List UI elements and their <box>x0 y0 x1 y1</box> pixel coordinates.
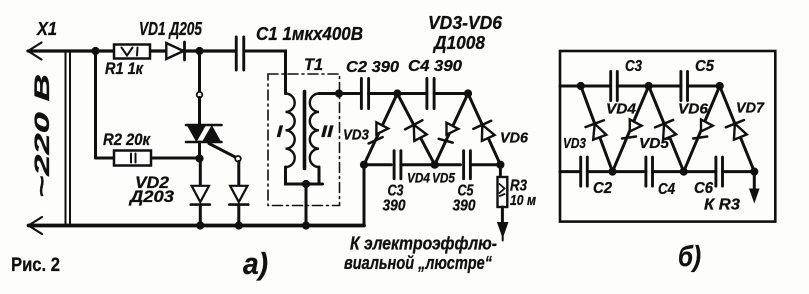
svg-text:10 м: 10 м <box>510 192 536 209</box>
svg-text:~220 В: ~220 В <box>30 74 54 198</box>
svg-text:VD3: VD3 <box>343 127 370 144</box>
svg-text:C4: C4 <box>658 181 675 198</box>
svg-text:VD3-VD6: VD3-VD6 <box>428 13 503 33</box>
svg-text:VD1 Д205: VD1 Д205 <box>139 19 203 39</box>
svg-text:R2 20к: R2 20к <box>103 130 151 149</box>
svg-text:T1: T1 <box>304 55 323 74</box>
svg-text:VD3: VD3 <box>563 135 587 152</box>
svg-text:C3: C3 <box>625 58 642 75</box>
svg-text:C2: C2 <box>593 180 612 197</box>
svg-text:б): б) <box>678 241 701 273</box>
svg-text:II: II <box>321 122 335 141</box>
svg-text:C1 1мкх400В: C1 1мкх400В <box>256 24 363 44</box>
svg-text:К R3: К R3 <box>704 197 740 214</box>
svg-text:VD5: VD5 <box>432 170 455 186</box>
svg-text:VD6: VD6 <box>500 130 529 147</box>
svg-text:C5: C5 <box>695 58 715 75</box>
svg-text:C6: C6 <box>694 180 713 197</box>
svg-text:а): а) <box>243 246 268 281</box>
svg-text:X1: X1 <box>36 19 57 39</box>
svg-text:C4 390: C4 390 <box>408 58 462 75</box>
svg-text:Д1008: Д1008 <box>432 33 485 53</box>
svg-text:VD4: VD4 <box>407 170 430 186</box>
svg-text:К электроэффлю-: К электроэффлю- <box>350 234 497 254</box>
svg-text:390: 390 <box>453 198 476 215</box>
svg-text:R1 1к: R1 1к <box>105 59 144 78</box>
svg-text:C2 390: C2 390 <box>346 59 399 76</box>
svg-text:виальной „люстре“: виальной „люстре“ <box>344 253 492 273</box>
svg-text:Рис. 2: Рис. 2 <box>11 255 60 276</box>
svg-text:VD6: VD6 <box>678 101 709 118</box>
svg-text:390: 390 <box>383 198 406 215</box>
svg-text:VD5: VD5 <box>639 135 670 152</box>
svg-text:VD4: VD4 <box>606 101 637 118</box>
svg-text:VD7: VD7 <box>736 99 765 116</box>
svg-text:Д203: Д203 <box>128 187 175 206</box>
